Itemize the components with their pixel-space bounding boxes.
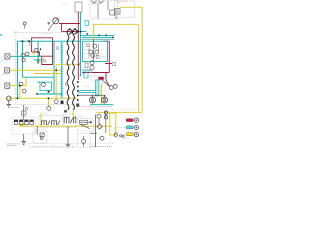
tick start of dashed border (13, 31, 15, 33)
wire bus to ground right (67, 126, 69, 144)
diagnostic connector small circles (120, 135, 122, 137)
dashed border lower harness (77, 109, 143, 111)
wire yellow sensor link (10, 77, 26, 98)
sensor unit B1 frame (80, 120, 88, 124)
marker circled number b5 (89, 70, 92, 73)
sensor box G3 (5, 83, 10, 88)
connector circle below bus (54, 100, 58, 104)
wire D2 drop (105, 111, 107, 133)
marker circled number b3 (65, 83, 68, 86)
sensor circle B2 (93, 44, 97, 48)
wire teal left vertical (17, 41, 19, 98)
text smudge gauge label (44, 33, 52, 35)
dashed box top-center fuse block (90, 1, 118, 19)
marker circled number b2 (56, 47, 59, 50)
text smudge relay labels (40, 112, 84, 117)
wire drop into relay block (23, 105, 25, 120)
pump stems (93, 95, 105, 97)
wire yellow drop to valve (48, 98, 50, 106)
wire yellow left horizontal A (10, 69, 62, 71)
dashed box switch S5 (78, 134, 91, 148)
wire maroon lower feed horizontal (62, 30, 79, 32)
small contact mark (48, 91, 50, 93)
wire gauge lead (48, 23, 54, 31)
arrowhead maroon cross (82, 71, 85, 73)
component teal box B (84, 72, 88, 78)
motor M1 (7, 96, 12, 101)
text smudge bottom right caption (90, 146, 112, 148)
wire teal pump feed1 (78, 89, 96, 91)
legend swatch cyan (126, 126, 133, 129)
fuse yellow small mid (33, 52, 35, 54)
sensor circle D2b (104, 116, 107, 119)
wire maroon cross horizontal (83, 72, 110, 74)
dashed box diagnostic connector (115, 127, 128, 138)
wire maroon center vertical (77, 12, 79, 80)
wire teal bus2 (80, 34, 114, 36)
relay K2 contacts (41, 121, 50, 126)
dashed small box relay top (90, 76, 96, 81)
sensor circle D1 (97, 114, 101, 118)
break mark chevron right (74, 29, 78, 34)
legend swatch yellow (126, 133, 133, 136)
legend icon 2 (134, 125, 138, 129)
dashed border main harness top (14, 32, 74, 34)
lamp symbol V2 (99, 1, 104, 3)
wire bottom stub (90, 132, 97, 134)
text smudge lower harness (77, 106, 113, 108)
component small squares below unit (85, 63, 88, 68)
ground G3 (66, 144, 71, 147)
wire maroon top feed vertical (61, 24, 63, 32)
wire maroon right branch horizontal (104, 40, 110, 42)
wire relay block to ground (23, 134, 25, 141)
control unit internal contacts (87, 44, 90, 47)
dashed box top-right switch unit (115, 1, 135, 18)
text smudge legend box (116, 135, 124, 137)
junction dots mid (28, 40, 41, 53)
wire bus to switch S4 (36, 126, 38, 135)
wire maroon lower stub (106, 73, 109, 87)
connector circles below unit (90, 61, 94, 65)
component under strip (61, 101, 64, 105)
gauge cluster circles (89, 50, 93, 54)
fuse yellow in relay block (20, 124, 25, 126)
connector yellow tall box (110, 113, 116, 135)
connector strip teal X1 (61, 42, 64, 99)
component teal band connector (96, 80, 100, 96)
wire diagonal to sensors (102, 80, 109, 86)
dashed box relay K3 (64, 114, 77, 127)
wire maroon loop left block (32, 38, 53, 65)
text smudge right mid labels (84, 87, 106, 91)
wire yellow right bottom link (96, 111, 143, 113)
wire teal pump feed2 (78, 92, 96, 94)
text smudge center cluster (84, 58, 92, 60)
sensor circle D3 (100, 136, 104, 140)
wire teal mid horizontal (22, 76, 54, 78)
sensor circle S2 (109, 86, 113, 90)
sensor box G2 (5, 68, 10, 73)
wire yellow right drop (100, 84, 102, 105)
wire teal below unit (82, 69, 90, 71)
relay circle left mid (26, 52, 30, 56)
legend swatch red (126, 119, 133, 122)
wire maroon right link (105, 64, 112, 73)
gauge symbol top (53, 18, 59, 24)
wire teal second left vertical (21, 41, 23, 77)
pump motor M3 (102, 97, 108, 103)
connector circle a2 (22, 58, 25, 61)
wire teal lower horizontal (90, 104, 113, 106)
break line wavy right (73, 29, 76, 111)
text smudge top right box (117, 1, 127, 3)
marker circled number b1 (29, 42, 32, 45)
connector mark below pins (76, 104, 79, 107)
pump motor M2 (90, 97, 96, 103)
break line wavy left (67, 29, 70, 111)
wire black pump bus (78, 94, 106, 96)
relay K3 contacts (64, 117, 73, 123)
wire yellow main bus mid (7, 97, 78, 99)
wire teal from sensor G1 (10, 55, 42, 57)
wire yellow riser K3 (72, 110, 74, 118)
wire maroon top feed horizontal (59, 23, 80, 25)
lamp symbol V1 (92, 1, 97, 3)
switch contact in fuse box (110, 10, 115, 15)
wire motor stem (8, 101, 10, 105)
wire dark bus4 (81, 38, 114, 40)
text smudge left column (2, 61, 8, 91)
marker circled number b6 (43, 59, 46, 62)
valve diamond (97, 124, 102, 129)
horn symbol top (23, 22, 26, 25)
wire vertical right of relays (95, 115, 97, 148)
legend icon 1 (134, 118, 138, 122)
wire yellow riser K2 (40, 114, 42, 126)
break mark chevron left (69, 29, 73, 34)
connector circle a3 (19, 82, 23, 86)
dashed box relay block K1 (12, 117, 36, 134)
text smudge caption left (6, 144, 19, 146)
wire maroon right vertical (108, 41, 110, 63)
label plate maroon (98, 77, 104, 80)
gauge blob (48, 22, 51, 25)
marker circled number b4 (25, 107, 28, 110)
sensor circle S3 (113, 84, 117, 88)
relay K1 contacts (14, 120, 33, 125)
wire yellow left horizontal B (34, 73, 62, 75)
ground G2 (21, 142, 26, 145)
valve circle at yellow drop (47, 106, 51, 110)
ground G1 (7, 104, 11, 107)
wire teal short A (34, 59, 42, 61)
text smudge teal boxes labels (83, 50, 90, 70)
dashed border bottom section (28, 143, 114, 145)
wire teal horizontal lower-mid (37, 93, 62, 95)
sensor unit B1 internals (79, 121, 92, 128)
wire yellow bottom bus (19, 125, 112, 127)
dashed border main harness left (14, 33, 16, 105)
component teal box C (40, 82, 52, 90)
text smudge left bottom (8, 107, 19, 109)
wire teal box C feed (37, 81, 40, 83)
connector circle in teal box C (42, 83, 46, 87)
wire yellow drop from fuse box (93, 24, 95, 44)
wire teal bus3 (82, 36, 114, 38)
junction dots (17, 31, 114, 100)
dashed border lower harness top (76, 75, 114, 77)
text smudge top designators (62, 3, 68, 5)
wire D1 drop (98, 118, 100, 124)
dashed box relay K2 (39, 116, 63, 128)
sensor box G1 (5, 54, 10, 59)
wire teal mid vertical (53, 41, 55, 94)
sensor circle D2 (104, 111, 107, 114)
wire yellow top right feed (120, 7, 142, 111)
pin column connector X3 (77, 81, 79, 101)
wire fuse box internal (98, 1, 116, 19)
connector small above K3 (64, 110, 67, 112)
connector circle a4 (22, 89, 26, 93)
connector circle a1 (21, 53, 25, 57)
diagnostic connector circle (114, 133, 117, 136)
wire teal center vertical (79, 12, 81, 77)
component teal small box (85, 21, 89, 26)
legend icon 3 (134, 132, 138, 136)
switch S4 contact (40, 133, 44, 137)
switch S4 circle (40, 137, 43, 140)
dashed border main harness bottom (15, 104, 76, 106)
diode green bar (37, 59, 39, 64)
text smudge caption bottom (30, 146, 76, 148)
wire teal stub to diode (37, 41, 39, 59)
wire dark center components (93, 39, 95, 61)
sensor circle on maroon wire (112, 62, 116, 66)
wire yellow center drop (56, 64, 77, 98)
wire teal junction horizontal (80, 31, 86, 33)
dashed box switch S4 (33, 131, 47, 143)
arrowhead maroon wire end (77, 63, 80, 65)
switch S6 in top right box (115, 9, 121, 15)
component teal control unit box (83, 41, 108, 61)
connector box X2 top (75, 2, 82, 12)
switch S5 internals (82, 139, 86, 143)
relay circle left mid2 (35, 49, 38, 52)
control unit text marks (84, 44, 106, 57)
connector small on drop (22, 111, 27, 115)
text smudge fuse box (92, 3, 101, 5)
wire yellow upper branch (94, 24, 139, 111)
wire teal long horizontal (18, 40, 82, 42)
wire teal margin speck (0, 34, 2, 36)
dashed box sensor unit B1 (78, 119, 94, 132)
